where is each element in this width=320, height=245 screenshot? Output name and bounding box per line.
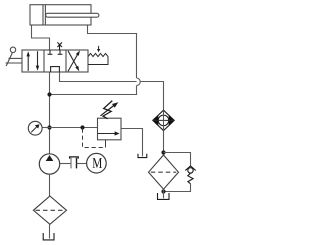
relief valve drain stub [105,140,107,148]
wire bypass branch top [164,153,191,167]
shaft pump to coupling [60,163,71,165]
wire check valve to filter [163,131,165,155]
wire cap-end pipe cylinder to valve A [32,25,50,50]
wire filter to tank (right) [163,189,165,198]
pump [39,154,59,174]
pressure gauge [28,121,42,135]
tank main (left) [43,233,54,240]
wire bypass branch bottom [164,184,191,192]
coupling [70,157,79,169]
bypass spring check valve [185,166,195,184]
wire hop bridge over T line [137,78,141,86]
valve left position parallel arrows [27,51,40,71]
lever actuator [6,47,22,66]
tank relief outlet [138,154,147,158]
relief valve adjustment arrow [100,102,118,116]
wire relief valve feed [50,127,98,129]
wire gauge stub [42,127,50,129]
wire pump suction [49,174,51,196]
node junction gauge/relief tee [47,125,51,129]
valve centre position blocked ports [48,50,63,54]
relief valve spring [103,101,112,119]
shaft coupling to motor [77,163,87,165]
tank return (right) [158,193,170,199]
motor M [87,153,107,173]
wire T return line valve to right branch [60,72,164,110]
plugged port B (X mark) [57,42,62,50]
relief valve pilot/drain dashed line [83,129,106,148]
cylinder body [30,5,91,25]
node junction relief drain tee [80,125,84,129]
filter suction (left) [33,196,66,224]
check valve (return line) [153,110,174,130]
wire rod-end pipe cylinder to P line (differential) with hop [50,25,137,95]
wire relief valve outlet [121,129,143,157]
relief valve flow arrow [98,131,120,135]
node junction differential tie-in [47,92,51,96]
wire filter to tank (left) [49,224,51,238]
node junction bypass bottom [161,189,165,193]
valve centre position P-T bypass [51,67,60,72]
valve return spring [88,46,108,65]
cylinder piston rod [46,13,99,17]
filter return (right) [149,155,179,189]
cylinder piston [43,5,45,25]
directional valve V1 envelopes [22,50,88,72]
wire P pressure line valve to pump [49,72,51,154]
node junction bypass top [161,150,165,154]
valve right position crossed arrows [68,50,80,71]
relief valve body [98,118,122,140]
